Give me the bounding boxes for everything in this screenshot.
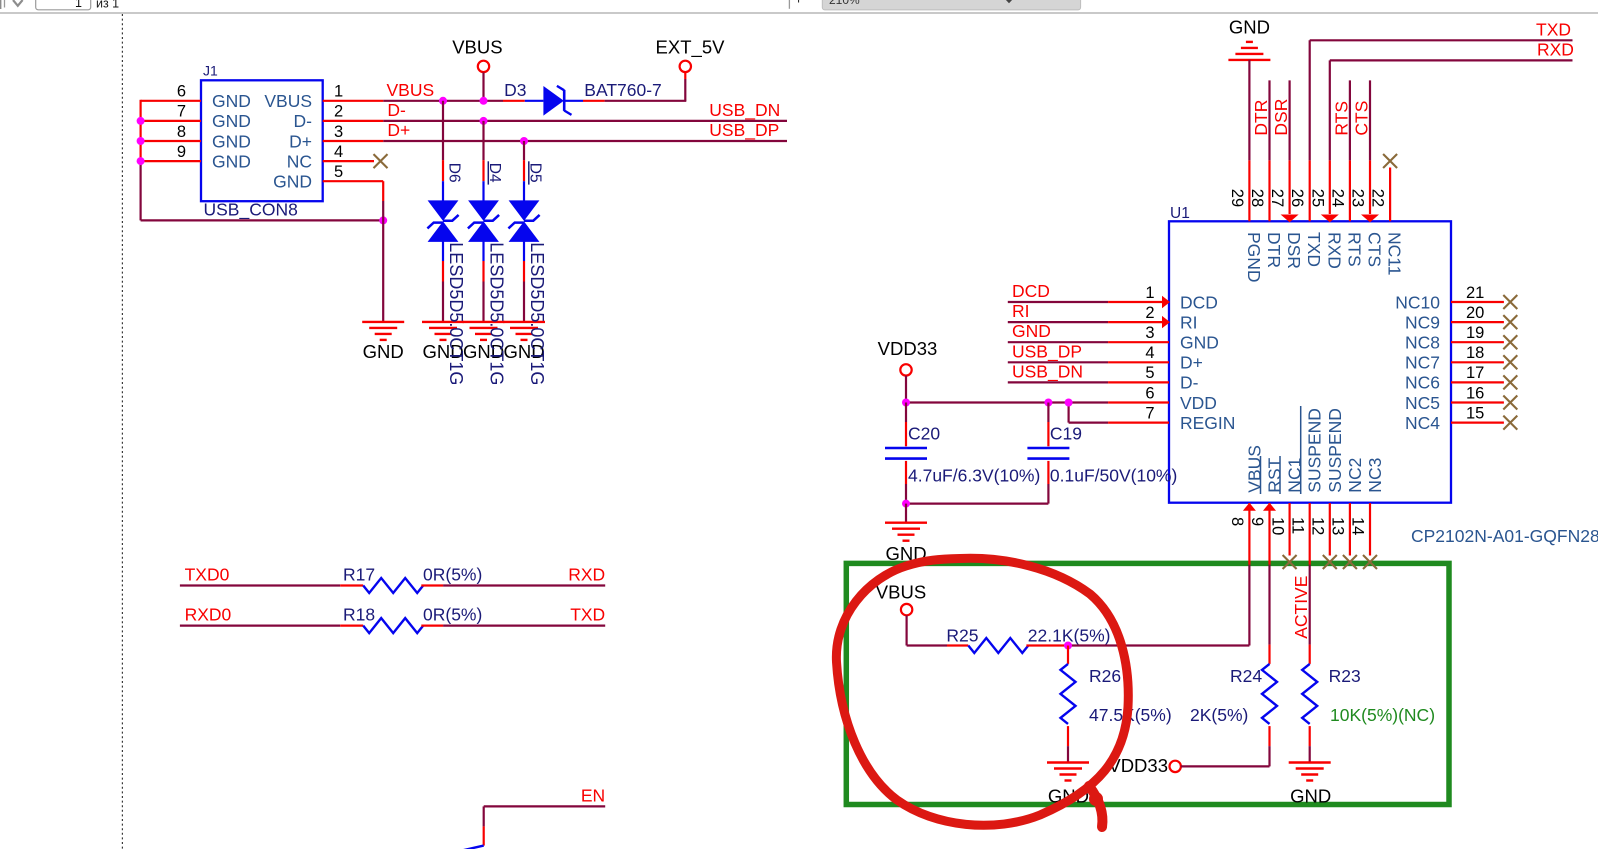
svg-text:SUSPEND: SUSPEND — [1305, 408, 1325, 493]
svg-text:RXD: RXD — [568, 565, 605, 585]
junction dot R25 R26 — [1064, 642, 1072, 650]
junction dot D- at D4 — [480, 117, 488, 125]
designator underline D4 — [487, 161, 489, 184]
svg-text:EN: EN — [581, 785, 605, 805]
wire USB_DP pin 4 — [1008, 361, 1169, 363]
ground symbol R26 — [1047, 761, 1089, 763]
wire D6 bottom pin — [442, 241, 444, 322]
power terminal VDD33 — [900, 364, 911, 402]
svg-text:21: 21 — [1466, 284, 1484, 302]
svg-text:0R(5%): 0R(5%) — [423, 565, 482, 585]
wire pin 10 stub — [1288, 503, 1290, 556]
svg-text:GND: GND — [363, 341, 404, 362]
wire pin 29 PGND to GND — [1248, 60, 1250, 221]
wire D3 cathode to EXT_5V — [564, 72, 686, 100]
U1 bottom pin numbers — [1228, 517, 1367, 535]
svg-text:4: 4 — [334, 143, 343, 161]
no-connect X pin 22 — [1383, 154, 1397, 168]
svg-text:U1: U1 — [1170, 205, 1190, 222]
svg-text:7: 7 — [1145, 404, 1154, 422]
svg-text:VBUS: VBUS — [1244, 445, 1264, 493]
designator underline D5 — [528, 161, 530, 184]
red circle crossing knot — [1089, 792, 1103, 806]
wire J1 pin 4 NC stub — [323, 160, 374, 162]
U1 top pin labels — [1244, 232, 1405, 283]
svg-text:из 1: из 1 — [96, 0, 119, 10]
svg-text:RXD: RXD — [1324, 232, 1344, 269]
no-connect X marks right pins — [1503, 295, 1517, 430]
svg-text:24: 24 — [1328, 189, 1346, 207]
diode D3 BAT760-7 schottky symbol — [543, 86, 571, 116]
svg-text:12: 12 — [1309, 517, 1327, 535]
svg-text:D-: D- — [1180, 373, 1199, 393]
wire pin 22 NC11 stub — [1389, 168, 1391, 222]
svg-text:17: 17 — [1466, 364, 1484, 382]
svg-text:NC3: NC3 — [1365, 458, 1385, 493]
U1 right NC pin stubs — [1451, 302, 1504, 423]
svg-text:25: 25 — [1308, 189, 1326, 207]
svg-text:D3: D3 — [504, 80, 526, 100]
resistor R24 — [1262, 645, 1277, 767]
svg-text:NC8: NC8 — [1405, 333, 1440, 353]
wire GND pin 3 — [1008, 341, 1169, 343]
svg-text:RTS: RTS — [1331, 101, 1351, 136]
junction dot caps gnd — [902, 500, 910, 508]
wire D+ to USB_DP — [323, 140, 787, 142]
svg-text:DCD: DCD — [1180, 292, 1218, 312]
svg-text:USB_CON8: USB_CON8 — [204, 200, 298, 221]
svg-text:DTR: DTR — [1264, 232, 1284, 268]
svg-text:13: 13 — [1329, 517, 1347, 535]
power terminal VBUS lower — [901, 604, 912, 646]
U1 bottom pin label bars — [1261, 406, 1301, 494]
IC U1 body — [1169, 221, 1451, 502]
wire D4 top pin — [482, 121, 484, 201]
resistor R25 — [907, 638, 1068, 653]
svg-text:REGIN: REGIN — [1180, 413, 1235, 433]
svg-text:NC6: NC6 — [1405, 373, 1440, 393]
svg-text:2: 2 — [1145, 304, 1154, 322]
svg-text:10K(5%)(NC): 10K(5%)(NC) — [1330, 705, 1435, 725]
svg-text:J1: J1 — [203, 63, 218, 79]
svg-text:0.1uF/50V(10%): 0.1uF/50V(10%) — [1050, 466, 1177, 486]
J1 pin labels left GND — [212, 91, 251, 171]
ground symbol C20 — [885, 522, 927, 524]
wire USB_DN pin 5 — [1008, 381, 1169, 383]
wire TXD right — [443, 624, 605, 626]
svg-text:DTR: DTR — [1251, 100, 1271, 136]
svg-text:PGND: PGND — [1244, 232, 1264, 283]
svg-text:NC5: NC5 — [1405, 393, 1440, 413]
capacitor C20 — [885, 403, 927, 504]
svg-text:RI: RI — [1012, 301, 1030, 321]
svg-text:LESD5D5.0CT1G: LESD5D5.0CT1G — [446, 242, 466, 385]
svg-text:0R(5%): 0R(5%) — [423, 605, 482, 625]
J1 pin numbers 1-5 — [334, 83, 343, 181]
toolbar page input box — [36, 0, 91, 10]
TVS diode D6 symbol — [427, 200, 458, 242]
svg-text:1: 1 — [1145, 284, 1154, 302]
svg-text:LESD5D5.0CT1G: LESD5D5.0CT1G — [527, 242, 547, 385]
svg-text:USB_DP: USB_DP — [1012, 341, 1082, 362]
svg-text:RST: RST — [1265, 457, 1285, 492]
red hand-drawn circle annotation — [836, 558, 1128, 825]
ground symbol D4 — [463, 321, 505, 323]
wire pin 11 SUSPEND — [1309, 503, 1311, 645]
svg-text:EXT_5V: EXT_5V — [656, 37, 726, 59]
svg-text:19: 19 — [1466, 324, 1484, 342]
U1 right pin labels — [1395, 292, 1440, 433]
svg-text:ACTIVE: ACTIVE — [1291, 576, 1311, 639]
svg-text:LESD5D5.0CT1G: LESD5D5.0CT1G — [487, 242, 507, 385]
svg-text:NC4: NC4 — [1405, 413, 1440, 433]
svg-text:TXD0: TXD0 — [185, 565, 230, 585]
wire D5 top pin — [523, 141, 525, 201]
svg-text:VDD: VDD — [1180, 393, 1217, 413]
svg-text:1: 1 — [75, 0, 82, 10]
wire VDD net — [906, 401, 1169, 403]
toolbar separator right — [788, 0, 790, 9]
no-connect X pin 10 — [1283, 555, 1297, 569]
resistor R18 — [340, 618, 443, 633]
svg-text:15: 15 — [1466, 404, 1484, 422]
TVS diode D5 symbol — [508, 200, 539, 242]
svg-text:GND: GND — [212, 91, 251, 111]
svg-text:5: 5 — [334, 163, 343, 181]
svg-text:GND: GND — [212, 131, 251, 151]
svg-text:2K(5%): 2K(5%) — [1190, 705, 1248, 725]
svg-text:14: 14 — [1349, 517, 1367, 535]
svg-text:D-: D- — [294, 111, 313, 131]
wire D5 bottom pin — [523, 241, 525, 322]
diode D3 anode wire — [503, 100, 543, 102]
U1 left pin labels — [1180, 292, 1235, 433]
J1 pin numbers 6-9 — [177, 83, 186, 161]
wire pin 24 RTS — [1349, 80, 1351, 221]
svg-text:R23: R23 — [1329, 666, 1361, 686]
ground symbol top inverted — [1228, 59, 1270, 61]
svg-text:SUSPEND: SUSPEND — [1325, 408, 1345, 493]
svg-text:8: 8 — [177, 123, 186, 141]
svg-text:R25: R25 — [946, 626, 978, 646]
svg-text:R17: R17 — [343, 565, 375, 585]
svg-text:4.7uF/6.3V(10%): 4.7uF/6.3V(10%) — [908, 466, 1040, 486]
svg-text:CP2102N-A01-GQFN28: CP2102N-A01-GQFN28 — [1411, 526, 1598, 546]
red circle tail — [1089, 786, 1102, 827]
wire D4 bottom pin — [482, 241, 484, 322]
svg-text:GND: GND — [212, 111, 251, 131]
svg-text:DSR: DSR — [1284, 232, 1304, 269]
resistor R17 — [340, 578, 443, 593]
wire pin 28 DTR — [1268, 80, 1270, 221]
resistor R26 — [1061, 646, 1076, 763]
svg-text:4: 4 — [1145, 344, 1154, 362]
svg-text:R18: R18 — [343, 605, 375, 625]
svg-text:10: 10 — [1268, 517, 1286, 535]
svg-text:D6: D6 — [446, 163, 463, 183]
svg-text:CTS: CTS — [1365, 232, 1385, 267]
svg-text:GND: GND — [1012, 321, 1051, 341]
svg-text:VBUS: VBUS — [876, 582, 926, 603]
wire pin 23 CTS — [1369, 80, 1371, 214]
svg-text:TXD: TXD — [1304, 232, 1324, 267]
U1 bottom pin labels — [1244, 408, 1385, 493]
wire VBUS from J1 pin 1 — [323, 100, 503, 102]
svg-text:27: 27 — [1268, 189, 1286, 207]
junction dots VBUS — [439, 97, 488, 105]
green highlight box — [846, 563, 1449, 804]
svg-text:GND: GND — [1290, 786, 1331, 807]
svg-text:NC11: NC11 — [1385, 232, 1405, 275]
U1 right pin numbers — [1466, 284, 1484, 423]
svg-text:7: 7 — [177, 103, 186, 121]
svg-text:9: 9 — [1248, 517, 1266, 526]
svg-text:VDD33: VDD33 — [878, 338, 938, 359]
svg-text:CTS: CTS — [1352, 101, 1372, 136]
wire RXD0 left — [180, 624, 340, 626]
TVS diode D4 symbol — [468, 200, 499, 242]
svg-text:GND: GND — [212, 151, 251, 171]
wire pin 14 stub — [1369, 503, 1371, 556]
svg-text:1: 1 — [334, 83, 343, 101]
no-connect X pin 12 — [1323, 555, 1337, 569]
ground symbol D5 — [503, 321, 545, 323]
ground symbol D6 — [422, 321, 464, 323]
svg-text:2: 2 — [334, 103, 343, 121]
svg-text:NC1: NC1 — [1285, 458, 1305, 493]
wire RI pin 2 — [1008, 321, 1163, 323]
svg-text:VBUS: VBUS — [452, 37, 502, 58]
ground symbol J1 — [362, 321, 404, 323]
wire EN — [484, 806, 606, 845]
toolbar zoom dropdown — [822, 0, 1080, 10]
svg-text:NC2: NC2 — [1345, 458, 1365, 493]
svg-text:22: 22 — [1369, 189, 1387, 207]
svg-text:VBUS: VBUS — [387, 80, 435, 100]
svg-text:6: 6 — [1145, 384, 1154, 402]
junction dots J1 left — [137, 117, 388, 224]
no-connect X J1 pin 4 — [374, 154, 388, 168]
svg-text:9: 9 — [177, 143, 186, 161]
svg-text:16: 16 — [1466, 384, 1484, 402]
svg-text:RTS: RTS — [1344, 232, 1364, 267]
ground symbol R23 — [1289, 761, 1331, 763]
power terminal EXT_5V — [680, 61, 691, 72]
junction dots VDD — [902, 399, 1073, 407]
svg-text:210%: 210% — [829, 0, 860, 7]
toolbar window edge mark — [0, 0, 2, 9]
svg-text:20: 20 — [1466, 304, 1484, 322]
wire C20 to ground — [905, 504, 907, 523]
svg-text:D+: D+ — [387, 120, 410, 140]
junction dot D+ at D5 — [520, 137, 528, 145]
wire pin 12 stub — [1329, 503, 1331, 556]
resistor below EN partial — [462, 846, 484, 851]
wire DCD pin 1 — [1008, 301, 1163, 303]
svg-text:11: 11 — [1288, 517, 1306, 534]
svg-text:C20: C20 — [908, 424, 940, 444]
wire RXD pin 25 — [1330, 60, 1573, 214]
svg-text:RXD0: RXD0 — [185, 605, 232, 625]
toolbar separator left — [4, 0, 6, 8]
svg-text:23: 23 — [1349, 189, 1367, 207]
svg-text:8: 8 — [1228, 517, 1246, 526]
svg-text:BAT760-7: BAT760-7 — [584, 80, 662, 100]
no-connect X pin 13 — [1343, 555, 1357, 569]
svg-text:GND: GND — [1180, 333, 1219, 353]
power terminal VDD33 lower — [1170, 761, 1270, 772]
svg-text:DSR: DSR — [1271, 99, 1291, 136]
J1 pin labels right — [264, 91, 312, 191]
svg-text:USB_DN: USB_DN — [1012, 361, 1083, 382]
svg-text:5: 5 — [1145, 364, 1154, 382]
svg-text:R24: R24 — [1230, 666, 1262, 686]
wire pin 9 RST — [1268, 503, 1270, 645]
svg-text:18: 18 — [1466, 344, 1484, 362]
svg-text:C19: C19 — [1050, 424, 1082, 444]
U1 top pin numbers — [1228, 189, 1387, 207]
sheet boundary dotted line — [121, 14, 123, 849]
svg-text:6: 6 — [177, 83, 186, 101]
svg-text:NC7: NC7 — [1405, 353, 1440, 373]
svg-text:28: 28 — [1248, 189, 1266, 207]
wire TXD0 left — [180, 584, 340, 586]
toolbar bottom border — [0, 12, 1598, 14]
wire pin 27 DSR — [1288, 80, 1290, 214]
svg-text:29: 29 — [1228, 189, 1246, 207]
svg-text:NC10: NC10 — [1395, 292, 1440, 312]
wire R25 to pin 8 VBUS — [1068, 503, 1249, 646]
wire D6 top pin — [442, 101, 444, 201]
U1 left pin numbers 1-7 — [1145, 284, 1154, 423]
svg-text:USB_DP: USB_DP — [709, 120, 779, 141]
wire J1 pin 5 GND — [323, 181, 384, 322]
wire REGIN branch — [1069, 403, 1169, 423]
svg-text:D-: D- — [387, 100, 406, 120]
svg-text:R26: R26 — [1089, 666, 1121, 686]
wire TXD pin 26 — [1310, 40, 1573, 221]
svg-text:RXD: RXD — [1537, 39, 1574, 59]
resistor R23 — [1302, 645, 1317, 763]
wire RXD right — [443, 584, 605, 586]
no-connect X pin 14 — [1363, 555, 1377, 569]
svg-text:GND: GND — [273, 172, 312, 192]
svg-text:D+: D+ — [1180, 353, 1203, 373]
svg-text:+: + — [795, 0, 803, 7]
connector J1 body — [201, 80, 323, 201]
svg-text:GND: GND — [1229, 17, 1270, 38]
svg-text:VBUS: VBUS — [264, 91, 312, 111]
capacitor C19 — [1027, 403, 1069, 504]
wire pin 13 stub — [1349, 503, 1351, 556]
svg-text:26: 26 — [1288, 189, 1306, 207]
power terminal VBUS — [478, 61, 489, 101]
svg-text:NC: NC — [287, 151, 312, 171]
wire J1 ground pins 6-9 — [141, 100, 384, 221]
svg-text:DCD: DCD — [1012, 281, 1050, 301]
wire D- to USB_DN — [323, 120, 787, 122]
svg-text:D+: D+ — [289, 131, 312, 151]
svg-text:USB_DN: USB_DN — [709, 100, 780, 121]
svg-text:NC9: NC9 — [1405, 312, 1440, 332]
svg-text:RI: RI — [1180, 312, 1198, 332]
svg-text:TXD: TXD — [1536, 19, 1571, 39]
svg-text:3: 3 — [1145, 324, 1154, 342]
wire caps ground bus — [906, 503, 1048, 505]
svg-text:3: 3 — [334, 123, 343, 141]
toolbar next-page arrow icon — [13, 0, 23, 6]
svg-text:TXD: TXD — [570, 605, 605, 625]
